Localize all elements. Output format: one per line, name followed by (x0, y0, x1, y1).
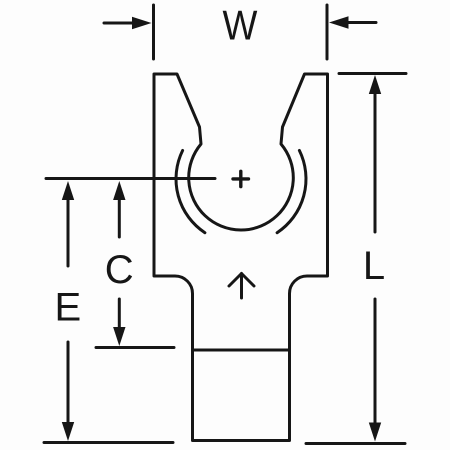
E dimension line (62, 181, 74, 441)
svg-text:E: E (54, 286, 81, 330)
L dimension line (369, 75, 381, 442)
W arrow right (329, 16, 376, 28)
left split arc (176, 151, 205, 233)
up arrow inside terminal (229, 274, 254, 299)
terminal body outline (154, 74, 328, 441)
svg-text:C: C (105, 248, 134, 292)
bottom reference line right (306, 442, 405, 445)
W extension line left (152, 5, 155, 59)
bottom reference line left (44, 441, 173, 444)
svg-text:L: L (363, 244, 385, 288)
C reference line (96, 346, 174, 349)
L top reference line (339, 72, 406, 75)
right split arc (277, 151, 306, 233)
C dimension line (113, 181, 125, 346)
W arrow left (104, 17, 152, 29)
W extension line right (326, 5, 329, 59)
centerline through fork (46, 177, 215, 180)
svg-text:W: W (223, 2, 259, 49)
center cross mark (233, 171, 249, 186)
barrel seam line (193, 349, 290, 352)
